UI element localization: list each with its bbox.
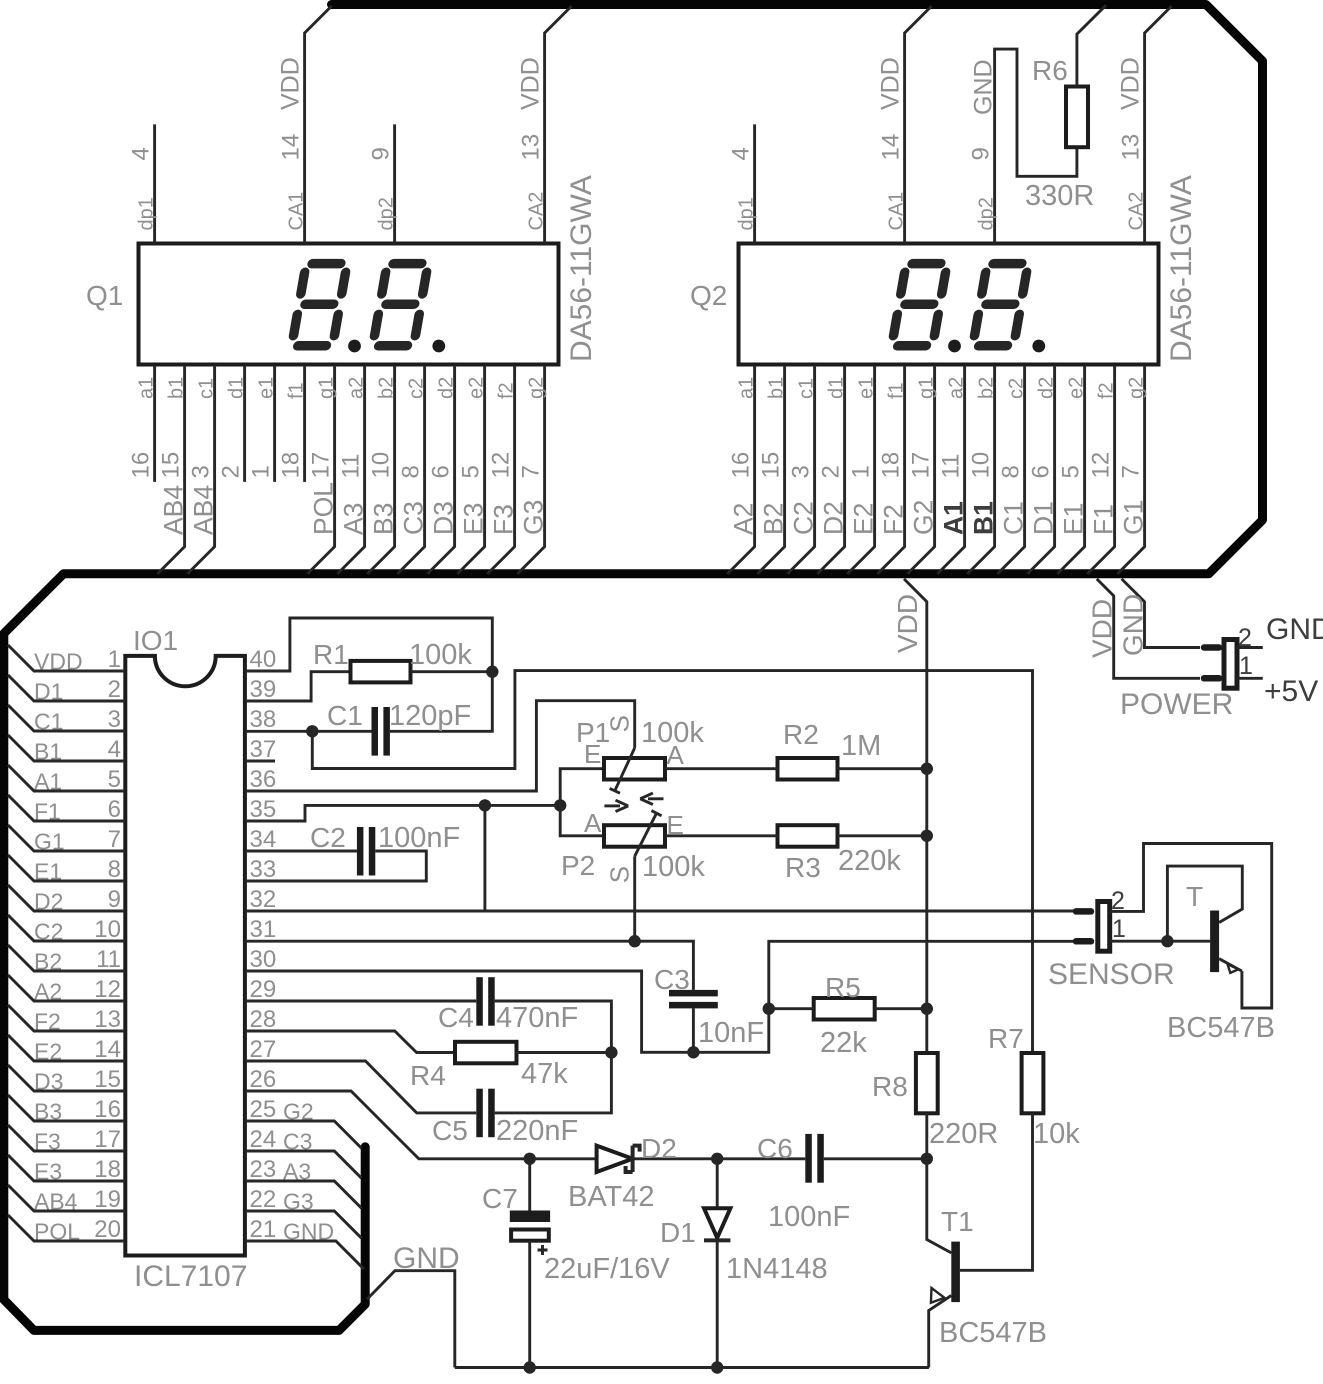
junction C7 bottom (524, 1361, 536, 1373)
svg-text:2: 2 (1238, 624, 1252, 652)
svg-text:100k: 100k (642, 851, 705, 883)
wire R6 top to bus (1077, 5, 1106, 86)
Q2 pin c2 (8) wire (997, 365, 1024, 574)
svg-text:e1: e1 (256, 377, 278, 399)
svg-text:1: 1 (1239, 652, 1253, 680)
svg-text:D1: D1 (34, 679, 63, 705)
svg-text:31: 31 (250, 916, 277, 943)
svg-text:S: S (604, 715, 634, 732)
Q1 pin f1 (18) wire (303, 365, 306, 482)
junction R3/VDD (921, 830, 933, 842)
svg-text:d2: d2 (1036, 377, 1058, 399)
IC pin 8 E1 wire (8, 855, 125, 881)
svg-text:22: 22 (250, 1186, 277, 1213)
svg-text:21: 21 (250, 1216, 277, 1243)
wire pin31 to C3 top (245, 941, 694, 990)
wire pin35 to common node (245, 805, 560, 821)
svg-text:30: 30 (250, 946, 277, 973)
Q1 pin e2 (5) wire (457, 365, 484, 574)
Q1 pin g1 (17) wire (307, 365, 334, 574)
svg-text:R2: R2 (783, 719, 819, 750)
svg-text:220nF: 220nF (496, 1115, 578, 1147)
wire dp2 to R6 (GND net) (995, 49, 1077, 243)
svg-text:14: 14 (878, 134, 905, 161)
svg-text:1: 1 (1112, 915, 1126, 943)
Q2 pin a2 (11) wire (937, 365, 964, 574)
IC pin 5 A1 wire (8, 765, 125, 791)
svg-text:D1: D1 (660, 1217, 696, 1248)
P1 wiper slot (615, 748, 635, 791)
svg-text:E2: E2 (34, 1039, 62, 1065)
svg-text:a2: a2 (346, 377, 368, 399)
IC pin 4 B1 wire (8, 735, 125, 761)
svg-text:9: 9 (108, 886, 121, 913)
svg-text:f1: f1 (286, 382, 308, 399)
svg-text:8: 8 (998, 465, 1025, 478)
capacitor C6 100nF (805, 1134, 812, 1183)
svg-text:5: 5 (1058, 465, 1085, 478)
resistor R1 100k (351, 661, 411, 683)
svg-text:6: 6 (1028, 465, 1055, 478)
wire R5 left (769, 1007, 814, 1010)
svg-text:D3: D3 (429, 501, 459, 535)
wire D2 to C6 (633, 1157, 806, 1160)
svg-text:AB4: AB4 (159, 485, 189, 535)
wire pin23 to bus (245, 1181, 362, 1208)
svg-text:17: 17 (908, 452, 935, 479)
P2 wiper arrow (648, 797, 664, 800)
svg-text:VDD: VDD (517, 57, 545, 110)
svg-text:BAT42: BAT42 (568, 1181, 655, 1213)
svg-text:Q2: Q2 (690, 280, 727, 311)
svg-text:VDD: VDD (892, 594, 923, 653)
svg-text:4: 4 (108, 736, 121, 763)
svg-text:R8: R8 (872, 1071, 908, 1102)
junction C3 bottom (687, 1046, 699, 1058)
svg-text:C3: C3 (399, 501, 429, 535)
wire pin32 to SENSOR pin2 (245, 910, 1074, 913)
Q1 pin b1 (15) wire (157, 365, 184, 574)
P2 wiper slot (635, 813, 657, 856)
svg-text:A1: A1 (939, 501, 969, 535)
svg-text:470nF: 470nF (496, 1002, 578, 1034)
wire pin36 to P1 wiper S (245, 701, 635, 791)
svg-text:DA56-11GWA: DA56-11GWA (565, 175, 598, 362)
Q2 pin CA2 (13) wire (1145, 6, 1172, 244)
svg-text:12: 12 (94, 976, 121, 1003)
svg-text:SENSOR: SENSOR (1048, 958, 1175, 991)
Q2 pin d1 (2) wire (817, 365, 844, 574)
Q1 pin f2 (12) wire (487, 365, 514, 574)
wire pin27 to C5 (245, 1061, 476, 1113)
wire C7 top lead (528, 1159, 531, 1211)
svg-text:9: 9 (968, 147, 995, 160)
svg-text:5: 5 (458, 465, 485, 478)
Q2 pin f2 (12) wire (1087, 365, 1114, 574)
svg-text:A2: A2 (729, 503, 759, 535)
resistor R7 10k (1022, 1053, 1044, 1113)
svg-text:a1: a1 (736, 377, 758, 399)
svg-text:b1: b1 (166, 377, 188, 399)
svg-text:+5V: +5V (1264, 675, 1318, 708)
wire pin24 to bus (245, 1151, 362, 1178)
svg-text:13: 13 (94, 1006, 121, 1033)
Q2 digits 8.8. (892, 264, 1028, 346)
svg-text:GND: GND (970, 59, 998, 115)
svg-text:E1: E1 (1059, 503, 1089, 535)
svg-text:AB4: AB4 (189, 485, 219, 535)
T emitter (1219, 959, 1242, 971)
svg-text:B2: B2 (759, 503, 789, 535)
svg-text:5: 5 (108, 766, 121, 793)
svg-text:c1: c1 (796, 378, 818, 399)
IC pin 15 D3 wire (8, 1065, 125, 1091)
svg-text:dp2: dp2 (376, 197, 398, 230)
IC pin 1 VDD wire (8, 645, 125, 671)
svg-text:7: 7 (518, 465, 545, 478)
svg-text:D2: D2 (34, 889, 63, 915)
7-segment display Q2 DA56-11GWA body (739, 244, 1159, 365)
capacitor C4 470nF (476, 977, 483, 1025)
svg-text:E: E (584, 739, 601, 769)
svg-text:10: 10 (368, 452, 395, 479)
svg-text:16: 16 (728, 452, 755, 479)
wire pin29 to C4 (245, 1000, 476, 1003)
svg-text:18: 18 (878, 452, 905, 479)
wire POWER pin1 to +5V label (1237, 677, 1263, 680)
wire R8 bottom (925, 1113, 928, 1159)
svg-text:10k: 10k (1033, 1118, 1080, 1150)
junction D1 top (711, 1153, 723, 1165)
wire pin28 to R4 (245, 1031, 455, 1053)
svg-text:C2: C2 (310, 822, 346, 853)
svg-text:47k: 47k (521, 1058, 568, 1090)
Q2 pin g2 (7) wire (1117, 365, 1144, 574)
IC pin 9 D2 wire (8, 885, 125, 911)
IC pin 20 POL wire (8, 1215, 125, 1241)
svg-text:d1: d1 (826, 377, 848, 399)
svg-text:E3: E3 (34, 1159, 62, 1185)
Q2 pin b1 (15) wire (757, 365, 784, 574)
svg-text:16: 16 (128, 452, 155, 479)
svg-text:2: 2 (218, 465, 245, 478)
svg-text:36: 36 (250, 766, 277, 793)
wire POWER pin2 to GND label (1237, 646, 1263, 649)
svg-text:C5: C5 (432, 1115, 468, 1146)
wire SENSOR pin1 / T base (1110, 940, 1210, 943)
svg-text:B1: B1 (969, 501, 999, 535)
7-segment display Q1 DA56-11GWA body (139, 244, 559, 365)
svg-text:1: 1 (848, 465, 875, 478)
svg-text:100k: 100k (409, 639, 472, 671)
junction R2/VDD (921, 763, 933, 775)
svg-text:Q1: Q1 (86, 280, 123, 311)
svg-text:F1: F1 (34, 799, 61, 825)
svg-text:c2: c2 (1006, 378, 1028, 399)
Q1 pin dp2 (9) wire (393, 124, 396, 243)
wire SENSOR pin2 to T emitter loop (1110, 844, 1272, 1009)
svg-text:F2: F2 (879, 504, 909, 535)
svg-text:R6: R6 (1032, 55, 1068, 86)
svg-text:D2: D2 (641, 1133, 677, 1164)
Q1 pin a2 (11) wire (337, 365, 364, 574)
svg-text:100nF: 100nF (378, 822, 460, 854)
IC pin 11 B2 wire (8, 945, 125, 971)
GND stub from bus to bottom rail (367, 1271, 455, 1368)
IC pin 6 F1 wire (8, 795, 125, 821)
svg-text:g1: g1 (916, 377, 938, 399)
svg-text:S: S (604, 866, 634, 883)
svg-text:a1: a1 (136, 377, 158, 399)
svg-text:BC547B: BC547B (1167, 1012, 1275, 1044)
svg-text:e2: e2 (466, 377, 488, 399)
svg-text:C1: C1 (999, 501, 1029, 535)
svg-text:G2: G2 (909, 500, 939, 535)
wire common node down to pin32 line (483, 805, 486, 911)
svg-text:G1: G1 (34, 829, 65, 855)
svg-text:34: 34 (250, 826, 277, 853)
diode D2 BAT42 (schottky) (597, 1146, 633, 1172)
svg-text:b2: b2 (976, 377, 998, 399)
svg-text:g1: g1 (316, 377, 338, 399)
wire pin38 loop to R7 (long horizontal) (312, 671, 1032, 1053)
svg-text:CA1: CA1 (886, 192, 908, 231)
IC pin 2 D1 wire (8, 675, 125, 701)
wire GND from bus to POWER pin2 (1122, 579, 1200, 648)
svg-text:1N4148: 1N4148 (726, 1253, 828, 1285)
svg-text:R3: R3 (785, 852, 821, 883)
svg-text:11: 11 (96, 946, 121, 973)
svg-text:dp2: dp2 (976, 197, 998, 230)
svg-text:C1: C1 (327, 700, 363, 731)
svg-text:a2: a2 (946, 377, 968, 399)
svg-text:VDD: VDD (277, 57, 305, 110)
junction pin38/C1 loop (306, 725, 318, 737)
junction D1 bottom (711, 1361, 723, 1373)
svg-text:330R: 330R (1025, 180, 1094, 212)
capacitor C1 120pF (372, 707, 379, 756)
svg-text:35: 35 (250, 796, 277, 823)
wire node down to C1 right plate (390, 672, 492, 732)
svg-text:C2: C2 (34, 919, 63, 945)
resistor R5 22k (814, 998, 875, 1020)
svg-text:B2: B2 (34, 949, 62, 975)
capacitor C5 220nF (476, 1089, 483, 1138)
svg-text:F3: F3 (489, 504, 519, 535)
wire pin33 to C2 right plate (245, 851, 426, 881)
resistor R4 47k (455, 1042, 517, 1064)
svg-text:CA1: CA1 (286, 192, 308, 231)
T1 collector wire (927, 1159, 952, 1253)
svg-text:11: 11 (938, 454, 965, 479)
connector SENSOR (1076, 908, 1091, 915)
wire D1 top lead (716, 1159, 719, 1209)
Q2 pin f1 (18) wire (877, 365, 904, 574)
Q2 pin dp1 (4) wire (753, 124, 756, 243)
svg-text:12: 12 (1088, 452, 1115, 479)
svg-text:22k: 22k (820, 1027, 867, 1059)
svg-text:14: 14 (94, 1036, 121, 1063)
svg-text:f1: f1 (886, 382, 908, 399)
svg-text:22uF/16V: 22uF/16V (544, 1253, 670, 1285)
Q2 pin d2 (6) wire (1027, 365, 1054, 574)
Q1 pin b2 (10) wire (367, 365, 394, 574)
svg-text:15: 15 (158, 452, 185, 479)
Q1 pin d2 (6) wire (427, 365, 454, 574)
IC pin 7 G1 wire (8, 825, 125, 851)
svg-text:D2: D2 (819, 501, 849, 535)
bottom GND rail (455, 1366, 929, 1369)
svg-text:c1: c1 (196, 378, 218, 399)
svg-text:17: 17 (94, 1126, 121, 1153)
svg-text:d1: d1 (226, 377, 248, 399)
svg-text:15: 15 (94, 1066, 121, 1093)
svg-text:C1: C1 (34, 709, 63, 735)
Q1 pin a1 (16) wire (153, 365, 156, 482)
VDD line from bus to R8 (904, 579, 927, 1053)
wire R3 to VDD line (838, 834, 927, 837)
svg-text:G3: G3 (519, 500, 549, 535)
svg-text:A2: A2 (34, 979, 62, 1005)
svg-text:20: 20 (94, 1216, 121, 1243)
svg-text:10: 10 (94, 916, 121, 943)
svg-text:37: 37 (250, 736, 277, 763)
wire R4 right (517, 1051, 612, 1054)
wire T collector tie loop (1167, 866, 1242, 941)
svg-text:B3: B3 (369, 503, 399, 535)
svg-text:10: 10 (968, 452, 995, 479)
svg-text:R5: R5 (825, 972, 861, 1003)
svg-text:3: 3 (108, 706, 121, 733)
svg-text:3: 3 (188, 465, 215, 478)
svg-text:dp1: dp1 (136, 197, 158, 230)
svg-text:C3: C3 (654, 964, 690, 995)
svg-text:A: A (667, 740, 685, 770)
svg-text:g2: g2 (1126, 377, 1148, 399)
svg-text:P2: P2 (561, 850, 595, 881)
svg-text:IO1: IO1 (133, 625, 178, 656)
svg-text:B1: B1 (34, 739, 62, 765)
svg-text:13: 13 (518, 134, 545, 161)
svg-text:D3: D3 (34, 1069, 63, 1095)
Q1 pin c1 (3) wire (187, 365, 214, 574)
svg-text:F1: F1 (1089, 504, 1119, 535)
wire R7 bottom to T1 base (960, 1113, 1033, 1270)
Q1 pin c2 (8) wire (397, 365, 424, 574)
IC pin 3 C1 wire (8, 705, 125, 731)
svg-text:C6: C6 (757, 1133, 793, 1164)
IC pin 14 E2 wire (8, 1035, 125, 1061)
svg-text:BC547B: BC547B (939, 1317, 1047, 1349)
svg-text:VDD: VDD (34, 649, 83, 675)
Q2 pin e2 (5) wire (1057, 365, 1084, 574)
svg-text:11: 11 (338, 454, 365, 479)
Q2 pin e1 (1) wire (847, 365, 874, 574)
svg-text:17: 17 (308, 452, 335, 479)
Q2 pin b2 (10) wire (967, 365, 994, 574)
svg-text:220k: 220k (838, 845, 901, 877)
svg-text:12: 12 (488, 452, 515, 479)
junction T base/collector tie (1161, 935, 1173, 947)
svg-text:d2: d2 (436, 377, 458, 399)
svg-text:1M: 1M (841, 730, 881, 762)
IC pin 10 C2 wire (8, 915, 125, 941)
svg-text:R1: R1 (313, 639, 349, 670)
svg-text:4: 4 (728, 147, 755, 160)
svg-text:b1: b1 (766, 377, 788, 399)
svg-text:39: 39 (250, 676, 277, 703)
wire R1 right to node (411, 670, 493, 673)
wire pin25 to bus (245, 1121, 362, 1148)
svg-text:25: 25 (250, 1096, 277, 1123)
svg-text:DA56-11GWA: DA56-11GWA (1165, 175, 1198, 362)
svg-text:33: 33 (250, 856, 277, 883)
transistor T BC547B (sensor) (1210, 911, 1219, 973)
svg-text:E3: E3 (459, 503, 489, 535)
wire P1.E / P2.A vertical (560, 769, 604, 836)
svg-text:G1: G1 (1119, 500, 1149, 535)
svg-text:28: 28 (250, 1006, 277, 1033)
svg-text:dp1: dp1 (736, 197, 758, 230)
Q2 pin a1 (16) wire (727, 365, 754, 574)
IC pin 12 A2 wire (8, 975, 125, 1001)
wire pin26 to C7/D2 node (245, 1091, 597, 1159)
wire C4 right down to C5 right (495, 1001, 612, 1113)
IC pin 19 AB4 wire (8, 1185, 125, 1211)
wire pin37 stub (245, 760, 275, 763)
Q2 pin c1 (3) wire (787, 365, 814, 574)
svg-text:f2: f2 (496, 382, 518, 399)
svg-text:ICL7107: ICL7107 (134, 1260, 247, 1293)
svg-text:2: 2 (818, 465, 845, 478)
IC pin 18 E3 wire (8, 1155, 125, 1181)
svg-text:9: 9 (368, 147, 395, 160)
wire R5 right to VDD (875, 1007, 927, 1010)
wire D1 bottom lead (716, 1240, 719, 1367)
svg-text:100nF: 100nF (768, 1201, 850, 1233)
resistor R8 220R (916, 1053, 938, 1113)
svg-text:4: 4 (128, 147, 155, 160)
svg-text:GND: GND (393, 1242, 460, 1275)
svg-text:7: 7 (108, 826, 121, 853)
svg-text:VDD: VDD (877, 57, 905, 110)
svg-text:AB4: AB4 (34, 1189, 78, 1215)
wire P2.E to R3 (665, 834, 778, 837)
wire pin22 to bus (245, 1211, 362, 1238)
IC pin 17 F3 wire (8, 1125, 125, 1151)
svg-text:E1: E1 (34, 859, 62, 885)
wire pin34 to C2 left plate (245, 850, 357, 853)
svg-text:POL: POL (34, 1219, 80, 1245)
svg-text:CA2: CA2 (1126, 192, 1148, 231)
Q1 digit 8 (left) and 8 (right) with decimal points (292, 264, 428, 346)
junction common/P1-P2 (554, 799, 566, 811)
potentiometer P1 100k body (604, 758, 665, 780)
Q1 pin e1 (1) wire (273, 365, 276, 482)
svg-text:A: A (584, 808, 602, 838)
wire pin39 to R1 left (245, 672, 351, 701)
svg-text:19: 19 (94, 1186, 121, 1213)
svg-text:32: 32 (250, 886, 277, 913)
svg-text:24: 24 (250, 1126, 277, 1153)
svg-text:1: 1 (108, 646, 121, 673)
svg-text:R4: R4 (410, 1060, 446, 1091)
svg-text:E2: E2 (849, 503, 879, 535)
svg-text:40: 40 (250, 646, 277, 673)
junction common/pin32 branch (479, 799, 491, 811)
svg-text:6: 6 (108, 796, 121, 823)
T1 emitter wire (929, 1296, 952, 1368)
